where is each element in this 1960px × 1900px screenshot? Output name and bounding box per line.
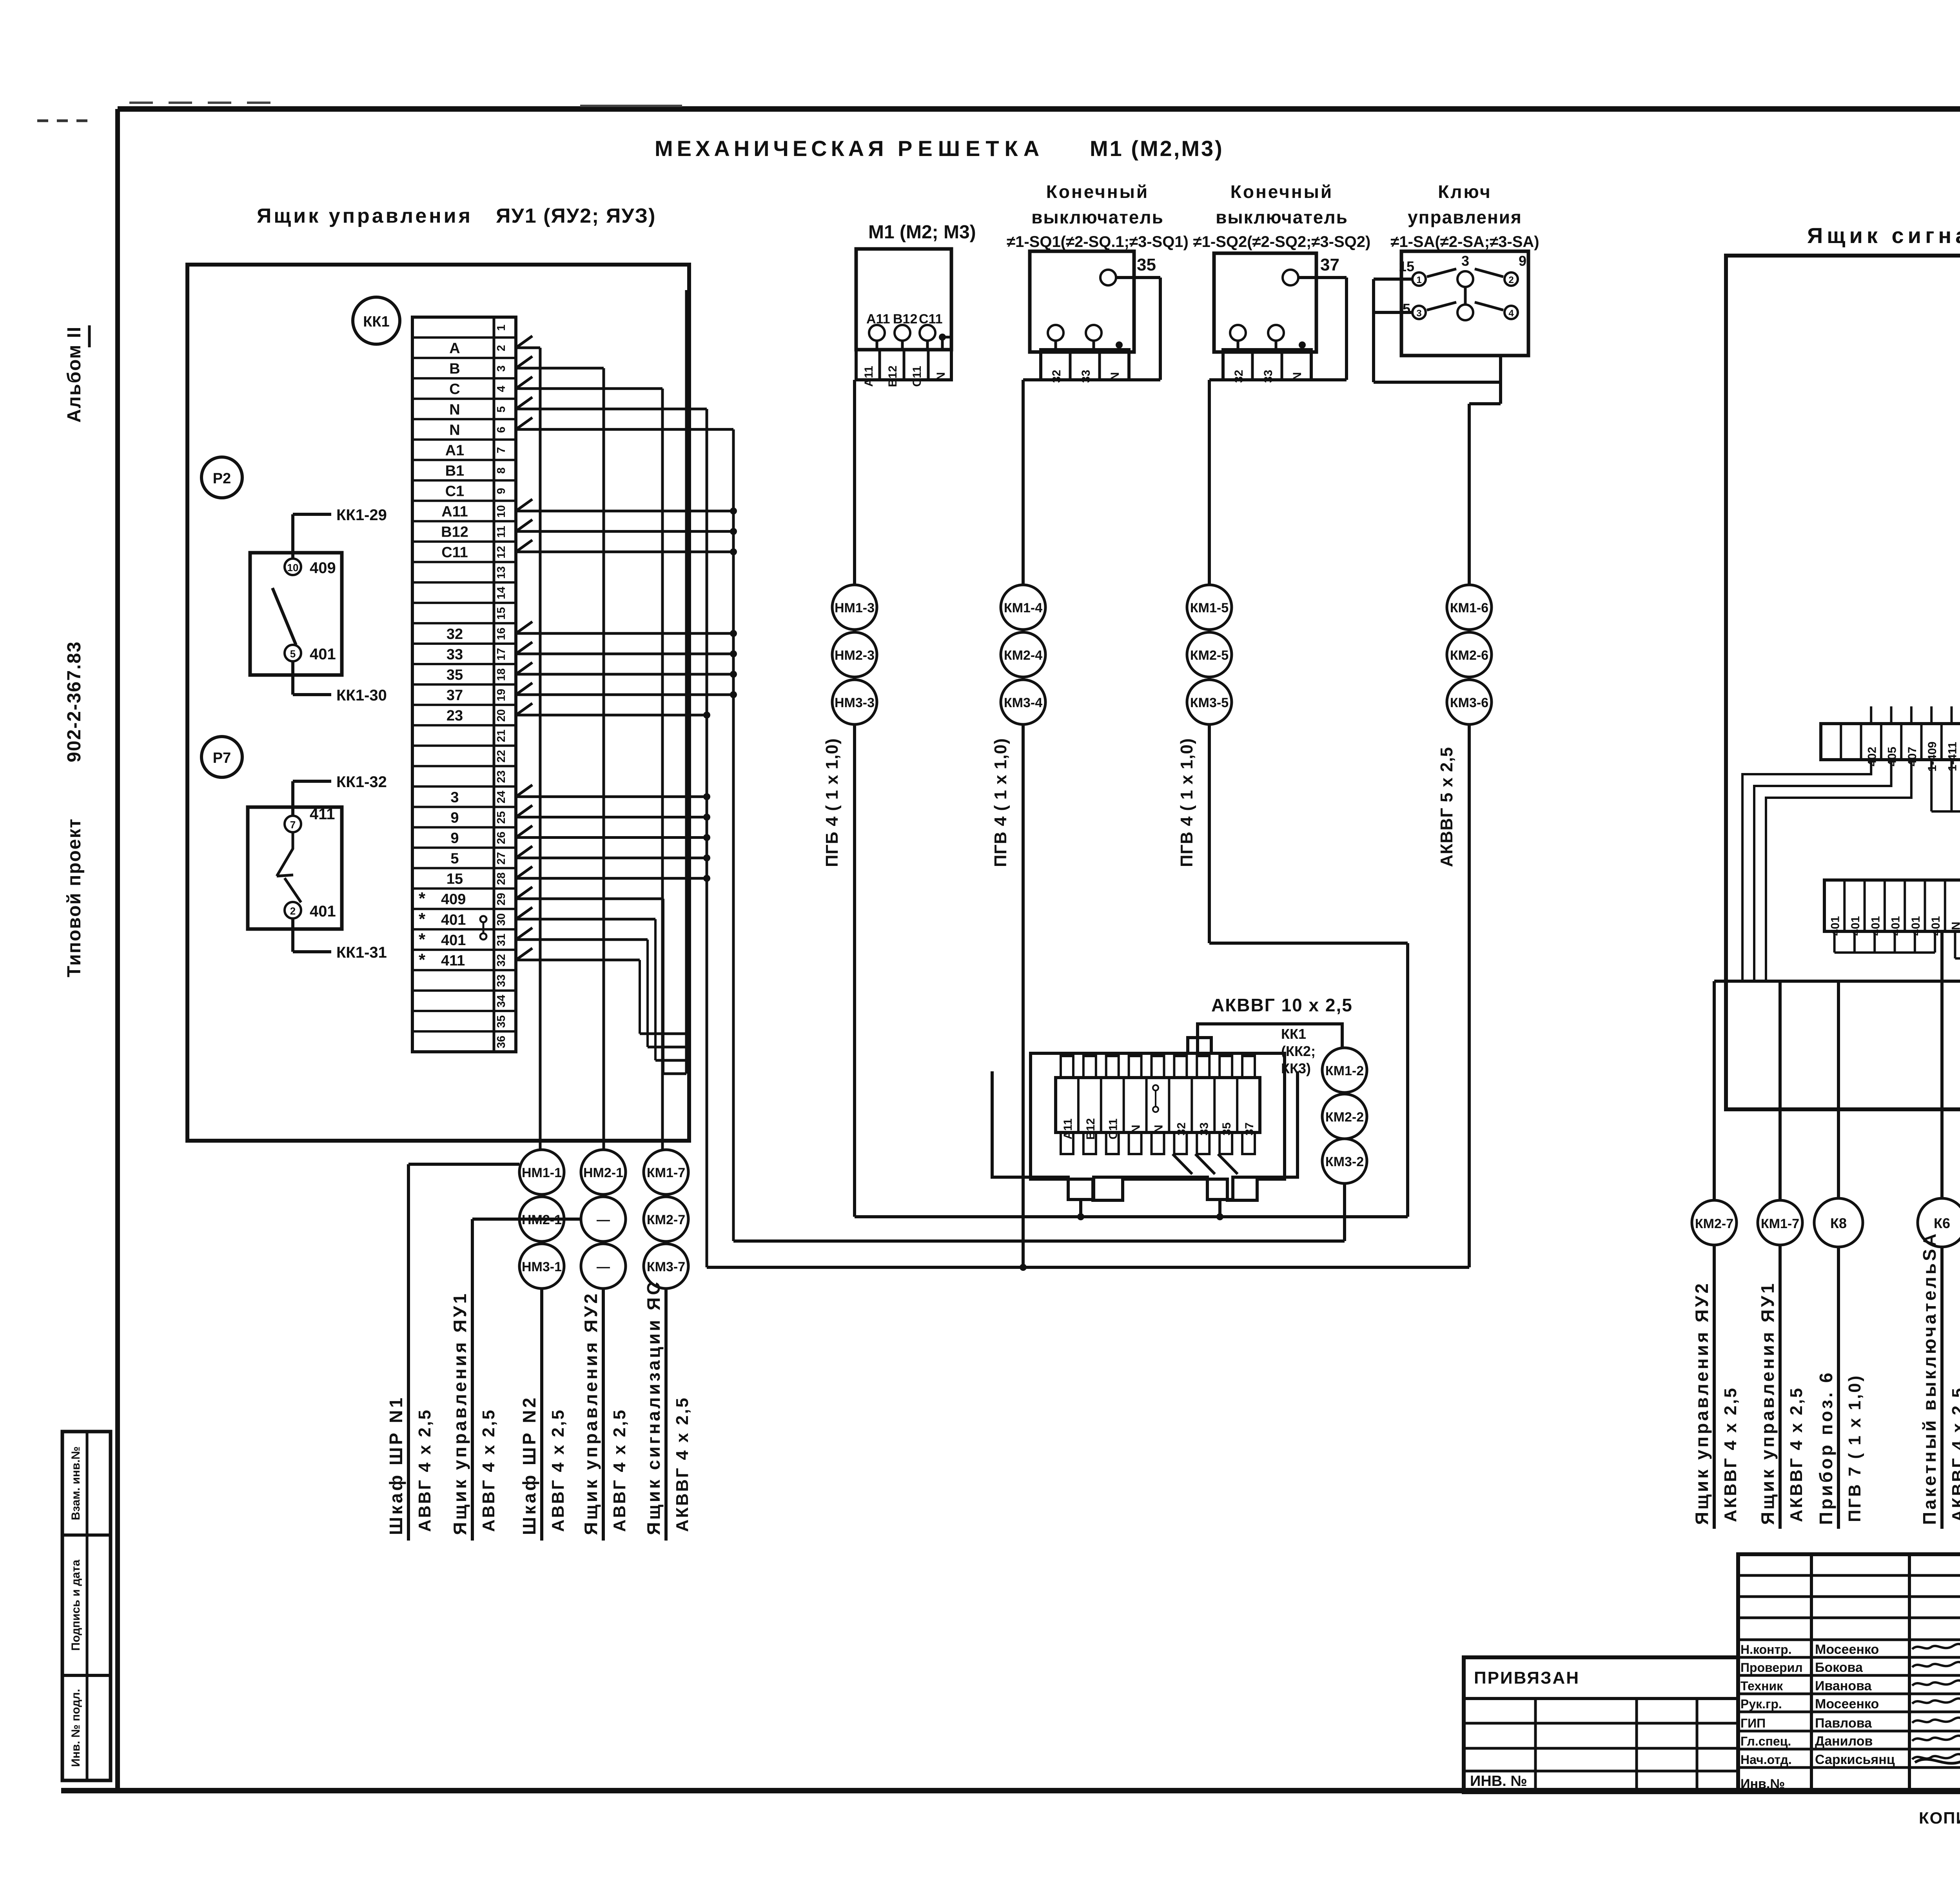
svg-text:Типовой проект: Типовой проект bbox=[64, 818, 85, 977]
svg-text:ПГБ 4 ( 1 х 1,0): ПГБ 4 ( 1 х 1,0) bbox=[822, 738, 842, 867]
svg-text:Ключ: Ключ bbox=[1438, 181, 1492, 202]
svg-text:7: 7 bbox=[290, 819, 296, 831]
svg-text:НМ1-3: НМ1-3 bbox=[835, 601, 875, 615]
svg-text:КМ2-2: КМ2-2 bbox=[1325, 1110, 1364, 1125]
svg-text:33: 33 bbox=[446, 646, 463, 663]
svg-text:27: 27 bbox=[495, 852, 508, 864]
svg-text:Саркисьянц: Саркисьянц bbox=[1815, 1752, 1895, 1767]
svg-text:Ящик сигнализации: Ящик сигнализации bbox=[1807, 223, 1960, 248]
svg-text:5: 5 bbox=[450, 851, 459, 867]
svg-text:С11: С11 bbox=[441, 544, 468, 561]
svg-text:АКВВГ 4 х 2,5: АКВВГ 4 х 2,5 bbox=[1949, 1386, 1960, 1522]
svg-text:17: 17 bbox=[495, 648, 508, 661]
svg-text:Гл.спец.: Гл.спец. bbox=[1740, 1734, 1791, 1748]
svg-text:401: 401 bbox=[310, 646, 336, 663]
svg-text:36: 36 bbox=[495, 1036, 508, 1048]
svg-text:7: 7 bbox=[495, 447, 508, 453]
svg-text:Ящик сигнализации ЯС: Ящик сигнализации ЯС bbox=[643, 1279, 664, 1535]
svg-text:АКВВГ 4 х 2,5: АКВВГ 4 х 2,5 bbox=[673, 1396, 692, 1532]
svg-text:КК1: КК1 bbox=[1281, 1026, 1306, 1042]
svg-text:32: 32 bbox=[446, 626, 463, 642]
svg-text:33: 33 bbox=[495, 974, 508, 987]
svg-text:5: 5 bbox=[290, 648, 296, 660]
svg-text:КМ3-7: КМ3-7 bbox=[647, 1259, 685, 1274]
svg-text:9: 9 bbox=[495, 488, 508, 494]
svg-text:Павлова: Павлова bbox=[1815, 1716, 1872, 1731]
svg-text:15: 15 bbox=[495, 607, 508, 620]
svg-text:20: 20 bbox=[495, 709, 508, 722]
svg-text:≠1-SQ1(≠2-SQ.1;≠3-SQ1): ≠1-SQ1(≠2-SQ.1;≠3-SQ1) bbox=[1007, 233, 1189, 250]
svg-text:АВВГ 4 х 2,5: АВВГ 4 х 2,5 bbox=[415, 1408, 434, 1532]
svg-text:В: В bbox=[449, 361, 460, 377]
svg-text:19: 19 bbox=[495, 689, 508, 701]
svg-text:9: 9 bbox=[450, 809, 459, 826]
svg-text:Мосеенко: Мосеенко bbox=[1815, 1642, 1879, 1657]
svg-text:12: 12 bbox=[495, 546, 508, 559]
svg-text:37: 37 bbox=[1320, 255, 1339, 274]
svg-text:28: 28 bbox=[495, 873, 508, 885]
svg-text:21: 21 bbox=[495, 730, 508, 742]
svg-text:А11: А11 bbox=[441, 504, 468, 520]
svg-text:КМ1-4: КМ1-4 bbox=[1004, 601, 1042, 615]
svg-text:С: С bbox=[449, 381, 460, 397]
svg-text:Прибор поз. 6: Прибор поз. 6 bbox=[1816, 1370, 1836, 1525]
svg-text:НМ1-1: НМ1-1 bbox=[522, 1165, 562, 1180]
svg-text:Н.контр.: Н.контр. bbox=[1740, 1642, 1792, 1657]
svg-text:35: 35 bbox=[446, 667, 463, 683]
svg-text:*: * bbox=[419, 950, 426, 969]
svg-text:Альбом II: Альбом II bbox=[64, 326, 85, 423]
svg-text:N: N bbox=[449, 422, 460, 438]
svg-text:АКВВГ 4 х 2,5: АКВВГ 4 х 2,5 bbox=[1787, 1386, 1806, 1522]
svg-text:АКВВГ 5 х 2,5: АКВВГ 5 х 2,5 bbox=[1437, 747, 1456, 867]
svg-text:411: 411 bbox=[441, 953, 465, 969]
svg-text:Шкаф ШР N1: Шкаф ШР N1 bbox=[386, 1396, 406, 1535]
svg-text:Р2: Р2 bbox=[213, 470, 231, 487]
svg-text:МЕХАНИЧЕСКАЯ: МЕХАНИЧЕСКАЯ bbox=[655, 136, 888, 161]
svg-text:М1 (М2,М3): М1 (М2,М3) bbox=[1090, 136, 1224, 161]
svg-text:32: 32 bbox=[1232, 370, 1245, 383]
svg-text:Конечный: Конечный bbox=[1230, 181, 1333, 202]
svg-text:2: 2 bbox=[495, 345, 508, 351]
svg-text:5: 5 bbox=[1403, 301, 1410, 317]
svg-text:К8: К8 bbox=[1830, 1215, 1847, 1231]
svg-text:Техник: Техник bbox=[1740, 1679, 1783, 1693]
svg-text:А: А bbox=[449, 340, 460, 357]
svg-text:Подпись и дата: Подпись и дата bbox=[69, 1559, 82, 1651]
svg-text:Ящик управления: Ящик управления bbox=[257, 205, 473, 227]
svg-text:4: 4 bbox=[1508, 308, 1514, 319]
svg-text:N: N bbox=[1109, 372, 1122, 381]
svg-text:11: 11 bbox=[495, 526, 508, 538]
svg-text:КОПИРОВАЛ ЕРЕМЧЕНКО: КОПИРОВАЛ ЕРЕМЧЕНКО bbox=[1919, 1809, 1960, 1827]
svg-text:411: 411 bbox=[310, 806, 335, 823]
svg-text:В12: В12 bbox=[441, 524, 468, 541]
svg-text:АКВВГ 4 х 2,5: АКВВГ 4 х 2,5 bbox=[1721, 1386, 1740, 1522]
svg-text:КМ2-5: КМ2-5 bbox=[1190, 648, 1229, 663]
svg-text:КК1-30: КК1-30 bbox=[336, 687, 387, 704]
svg-text:2: 2 bbox=[290, 905, 296, 917]
svg-text:Инв. № подл.: Инв. № подл. bbox=[69, 1689, 82, 1767]
svg-text:РЕШЕТКА: РЕШЕТКА bbox=[898, 136, 1045, 161]
svg-text:18: 18 bbox=[495, 668, 508, 681]
svg-text:С1: С1 bbox=[445, 483, 465, 500]
svg-text:Ящик управления ЯУ1: Ящик управления ЯУ1 bbox=[1757, 1281, 1778, 1525]
svg-text:6: 6 bbox=[495, 426, 508, 433]
svg-text:КМ3-6: КМ3-6 bbox=[1450, 695, 1488, 710]
svg-text:9: 9 bbox=[1519, 253, 1526, 269]
svg-text:Бокова: Бокова bbox=[1815, 1660, 1863, 1675]
svg-text:Иванова: Иванова bbox=[1815, 1679, 1872, 1693]
svg-text:—: — bbox=[597, 1212, 610, 1227]
svg-text:1: 1 bbox=[1416, 275, 1421, 285]
svg-text:Данилов: Данилов bbox=[1815, 1734, 1873, 1749]
svg-text:Взам. инв.№: Взам. инв.№ bbox=[69, 1446, 82, 1521]
svg-text:НМ3-1: НМ3-1 bbox=[522, 1259, 562, 1274]
svg-text:КМ3-5: КМ3-5 bbox=[1190, 695, 1229, 710]
svg-text:Шкаф ШР N2: Шкаф ШР N2 bbox=[519, 1396, 539, 1535]
svg-text:НМ2-1: НМ2-1 bbox=[583, 1165, 623, 1180]
svg-text:АВВГ 4 х 2,5: АВВГ 4 х 2,5 bbox=[479, 1408, 498, 1532]
svg-text:КМ1-7: КМ1-7 bbox=[1761, 1216, 1799, 1231]
svg-text:КК1-29: КК1-29 bbox=[336, 506, 387, 524]
svg-text:9: 9 bbox=[450, 830, 459, 847]
svg-text:35: 35 bbox=[1137, 255, 1156, 274]
svg-text:13: 13 bbox=[495, 566, 508, 579]
svg-text:Нач.отд.: Нач.отд. bbox=[1740, 1753, 1792, 1767]
svg-text:КМ2-7: КМ2-7 bbox=[1695, 1216, 1733, 1231]
svg-text:≠1-SA(≠2-SA;≠3-SA): ≠1-SA(≠2-SA;≠3-SA) bbox=[1390, 233, 1539, 250]
svg-text:33: 33 bbox=[1080, 370, 1093, 383]
svg-text:выключатель: выключатель bbox=[1216, 207, 1348, 227]
svg-text:Инв.№: Инв.№ bbox=[1740, 1777, 1785, 1791]
svg-text:32: 32 bbox=[495, 954, 508, 967]
svg-text:А11: А11 bbox=[866, 312, 890, 327]
svg-text:выключатель: выключатель bbox=[1031, 207, 1164, 227]
svg-text:N: N bbox=[1291, 372, 1304, 381]
svg-text:5: 5 bbox=[495, 406, 508, 412]
svg-text:КМ1-2: КМ1-2 bbox=[1325, 1063, 1364, 1078]
svg-text:АВВГ 4 х 2,5: АВВГ 4 х 2,5 bbox=[610, 1408, 629, 1532]
svg-text:ИНВ. №: ИНВ. № bbox=[1470, 1773, 1527, 1789]
svg-text:4: 4 bbox=[495, 386, 508, 392]
svg-text:3: 3 bbox=[1416, 308, 1421, 319]
svg-text:КМ2-7: КМ2-7 bbox=[647, 1212, 685, 1227]
svg-text:КК1-32: КК1-32 bbox=[336, 773, 387, 791]
svg-text:N: N bbox=[1949, 922, 1960, 930]
svg-text:Мосеенко: Мосеенко bbox=[1815, 1697, 1879, 1711]
svg-text:3: 3 bbox=[450, 789, 459, 806]
svg-text:409: 409 bbox=[310, 559, 336, 577]
svg-text:Ящик управления ЯУ2: Ящик управления ЯУ2 bbox=[1691, 1281, 1712, 1525]
svg-text:401: 401 bbox=[441, 932, 466, 949]
svg-text:N: N bbox=[935, 372, 947, 381]
svg-text:Ящик управления ЯУ1: Ящик управления ЯУ1 bbox=[450, 1291, 470, 1535]
svg-text:*: * bbox=[419, 909, 426, 929]
svg-text:30: 30 bbox=[495, 913, 508, 926]
svg-text:409: 409 bbox=[441, 891, 466, 908]
svg-text:14: 14 bbox=[495, 587, 508, 599]
svg-text:1: 1 bbox=[495, 325, 508, 331]
svg-text:ПРИВЯЗАН: ПРИВЯЗАН bbox=[1474, 1668, 1580, 1688]
svg-text:В12: В12 bbox=[886, 365, 899, 387]
svg-text:401: 401 bbox=[441, 912, 466, 928]
svg-text:ЯУ1 (ЯУ2; ЯУЗ): ЯУ1 (ЯУ2; ЯУЗ) bbox=[496, 205, 656, 227]
svg-text:2: 2 bbox=[1508, 275, 1514, 285]
svg-text:КК1-31: КК1-31 bbox=[336, 944, 387, 961]
svg-text:8: 8 bbox=[495, 467, 508, 474]
svg-text:ГИП: ГИП bbox=[1740, 1716, 1766, 1730]
svg-text:10: 10 bbox=[495, 505, 508, 517]
svg-text:34: 34 bbox=[495, 995, 508, 1007]
svg-text:АКВВГ 10 х 2,5: АКВВГ 10 х 2,5 bbox=[1211, 995, 1353, 1015]
svg-text:Конечный: Конечный bbox=[1046, 181, 1149, 202]
svg-text:401: 401 bbox=[310, 903, 336, 920]
svg-text:К6: К6 bbox=[1934, 1215, 1950, 1231]
svg-text:23: 23 bbox=[495, 770, 508, 783]
svg-text:ПГВ 4 ( 1 х 1,0): ПГВ 4 ( 1 х 1,0) bbox=[991, 738, 1010, 867]
svg-text:Рук.гр.: Рук.гр. bbox=[1740, 1697, 1782, 1711]
svg-text:10: 10 bbox=[287, 562, 299, 573]
svg-text:В1: В1 bbox=[445, 463, 465, 479]
svg-text:24: 24 bbox=[495, 791, 508, 803]
svg-text:15: 15 bbox=[1399, 258, 1414, 274]
svg-text:управления: управления bbox=[1408, 207, 1522, 227]
svg-text:Проверил: Проверил bbox=[1740, 1660, 1803, 1675]
svg-text:А11: А11 bbox=[862, 366, 875, 387]
svg-text:31: 31 bbox=[495, 934, 508, 946]
svg-text:КМ2-4: КМ2-4 bbox=[1004, 648, 1042, 663]
svg-text:КМ2-6: КМ2-6 bbox=[1450, 648, 1488, 663]
svg-text:35: 35 bbox=[495, 1015, 508, 1028]
svg-text:КМ1-7: КМ1-7 bbox=[647, 1165, 685, 1180]
svg-text:26: 26 bbox=[495, 831, 508, 844]
svg-text:*: * bbox=[419, 889, 426, 908]
svg-text:37: 37 bbox=[446, 687, 463, 704]
svg-text:НМ3-3: НМ3-3 bbox=[835, 695, 875, 710]
svg-text:КК1: КК1 bbox=[363, 314, 390, 330]
svg-text:23: 23 bbox=[446, 708, 463, 724]
svg-text:16: 16 bbox=[495, 628, 508, 640]
svg-text:(КК2;: (КК2; bbox=[1281, 1043, 1316, 1059]
svg-text:Ящик управления ЯУ2: Ящик управления ЯУ2 bbox=[581, 1291, 601, 1535]
svg-text:Пакетный выключательSA: Пакетный выключательSA bbox=[1919, 1231, 1940, 1525]
svg-text:М1 (М2; М3): М1 (М2; М3) bbox=[868, 222, 976, 243]
svg-text:В12: В12 bbox=[893, 312, 917, 327]
svg-text:КМ1-5: КМ1-5 bbox=[1190, 601, 1229, 615]
svg-text:АВВГ 4 х 2,5: АВВГ 4 х 2,5 bbox=[548, 1408, 568, 1532]
svg-text:С11: С11 bbox=[911, 366, 924, 387]
svg-text:≠1-SQ2(≠2-SQ2;≠3-SQ2): ≠1-SQ2(≠2-SQ2;≠3-SQ2) bbox=[1193, 233, 1371, 250]
svg-text:КМ3-2: КМ3-2 bbox=[1325, 1154, 1364, 1169]
svg-text:22: 22 bbox=[495, 750, 508, 762]
svg-text:КМ1-6: КМ1-6 bbox=[1450, 601, 1488, 615]
svg-text:Р7: Р7 bbox=[213, 750, 231, 766]
svg-text:3: 3 bbox=[495, 365, 508, 372]
svg-text:3: 3 bbox=[1461, 253, 1469, 269]
svg-text:N: N bbox=[449, 401, 460, 418]
svg-text:С11: С11 bbox=[919, 312, 943, 327]
svg-text:33: 33 bbox=[1262, 370, 1275, 383]
svg-text:НМ2-3: НМ2-3 bbox=[835, 648, 875, 663]
svg-text:32: 32 bbox=[1050, 370, 1063, 383]
svg-text:ПГВ 7 ( 1 х 1,0): ПГВ 7 ( 1 х 1,0) bbox=[1845, 1374, 1864, 1522]
svg-text:ПГВ 4 ( 1 х 1,0): ПГВ 4 ( 1 х 1,0) bbox=[1177, 738, 1196, 867]
svg-text:29: 29 bbox=[495, 893, 508, 906]
svg-text:КМ3-4: КМ3-4 bbox=[1004, 695, 1042, 710]
svg-text:902-2-367.83: 902-2-367.83 bbox=[64, 641, 85, 762]
svg-text:*: * bbox=[419, 930, 426, 949]
svg-text:—: — bbox=[597, 1259, 610, 1274]
svg-text:15: 15 bbox=[446, 871, 463, 887]
svg-text:25: 25 bbox=[495, 811, 508, 824]
svg-text:А1: А1 bbox=[445, 442, 465, 459]
